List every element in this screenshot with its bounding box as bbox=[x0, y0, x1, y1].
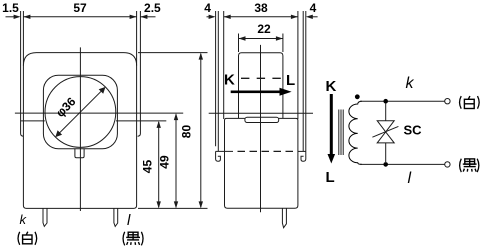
svg-text:4: 4 bbox=[204, 1, 211, 15]
svg-text:80: 80 bbox=[180, 125, 194, 139]
svg-text:2.5: 2.5 bbox=[144, 1, 161, 15]
svg-text:45: 45 bbox=[141, 160, 155, 174]
svg-text:1.5: 1.5 bbox=[2, 1, 19, 15]
svg-text:k: k bbox=[406, 75, 415, 92]
svg-text:l: l bbox=[127, 212, 131, 229]
svg-text:l: l bbox=[408, 170, 412, 187]
svg-text:4: 4 bbox=[310, 1, 317, 15]
svg-text:K: K bbox=[224, 72, 235, 89]
svg-text:L: L bbox=[286, 72, 295, 89]
svg-text:K: K bbox=[326, 78, 337, 95]
svg-text:22: 22 bbox=[257, 22, 271, 36]
svg-text:k: k bbox=[20, 212, 28, 227]
svg-text:57: 57 bbox=[73, 1, 87, 15]
svg-text:38: 38 bbox=[254, 1, 268, 15]
svg-text:49: 49 bbox=[158, 155, 172, 169]
svg-text:SC: SC bbox=[404, 123, 423, 138]
svg-text:φ36: φ36 bbox=[53, 94, 79, 120]
svg-text:L: L bbox=[326, 169, 335, 186]
